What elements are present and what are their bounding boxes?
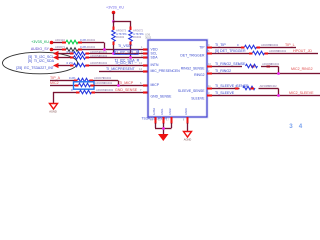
resistor R3072 stub bottom bbox=[130, 42, 132, 46]
resistor R3081 body bbox=[80, 90, 92, 94]
pin stub GND3 bbox=[171, 117, 173, 124]
wire row1 down bbox=[103, 43, 105, 50]
svg-text:AR3110: AR3110 bbox=[55, 38, 65, 42]
svg-text:MICP: MICP bbox=[151, 83, 160, 87]
svg-text:GND_SENSE: GND_SENSE bbox=[151, 95, 173, 99]
wire gnd right bbox=[170, 123, 172, 128]
resistor R3088 body bbox=[246, 64, 258, 68]
wire SLEEVES down bbox=[277, 89, 279, 96]
wire micp b bbox=[94, 84, 148, 86]
svg-text:5: 5 bbox=[208, 49, 210, 53]
junction SLEEVE bbox=[277, 94, 280, 97]
resistor R3051 stub r bbox=[86, 53, 90, 55]
wire SCL a bbox=[58, 52, 70, 54]
svg-text:RING2: RING2 bbox=[194, 73, 204, 77]
wire micp a bbox=[50, 84, 75, 86]
pin stub SDA bbox=[143, 57, 148, 59]
wire gnd sense b bbox=[95, 91, 148, 93]
svg-text:AUDIO_SY: AUDIO_SY bbox=[31, 47, 50, 51]
resistor R3110 body bbox=[66, 40, 78, 44]
svg-text:2: 2 bbox=[208, 69, 210, 73]
svg-text:AGND: AGND bbox=[49, 110, 57, 114]
resistor R3080 stub l bbox=[75, 85, 79, 87]
wire SDA a bbox=[58, 56, 70, 58]
svg-text:MIC2_SLEEVE: MIC2_SLEEVE bbox=[289, 91, 314, 95]
resistor R3081 stub r bbox=[92, 92, 96, 94]
wire RING2S a bbox=[212, 65, 242, 67]
junction SDA pullup bbox=[129, 56, 132, 59]
op-amp U3002 box bbox=[148, 40, 207, 117]
svg-text:+3V3S_KU: +3V3S_KU bbox=[106, 6, 124, 10]
resistor R3085 stub l bbox=[241, 47, 245, 49]
ground AGND right bbox=[184, 132, 192, 138]
svg-text:SDA: SDA bbox=[151, 55, 159, 59]
annotation ellipse bbox=[3, 52, 78, 74]
junction gnd bus bbox=[162, 127, 165, 130]
wire SDA b bbox=[89, 56, 148, 58]
resistor R3089 body bbox=[243, 86, 255, 90]
svg-text:0 2%: 0 2% bbox=[69, 76, 76, 80]
svg-text:[25] EC_TS3A227_INT: [25] EC_TS3A227_INT bbox=[16, 66, 55, 70]
ground AGND left bbox=[50, 104, 58, 110]
resistor R3071 stub l bbox=[62, 49, 66, 51]
svg-text:TI_I2C_SCL_R: TI_I2C_SCL_R bbox=[115, 51, 140, 55]
wire RING2 bbox=[212, 72, 320, 74]
svg-text:[5] TI_I2C_SDA: [5] TI_I2C_SDA bbox=[28, 59, 55, 63]
resistor R3088 stub r bbox=[267, 66, 271, 68]
wire gnd sense a bbox=[53, 91, 76, 93]
pin stub SCL bbox=[143, 53, 148, 55]
svg-text:TIP_L: TIP_L bbox=[285, 43, 295, 47]
resistor R3085 body bbox=[245, 45, 257, 49]
resistor R3051 stub l bbox=[70, 53, 74, 55]
pin stub MIC_PRESENT bbox=[143, 71, 148, 73]
pin stub INT bbox=[143, 65, 148, 67]
pin stub SLEEVE_SENSE bbox=[207, 88, 212, 90]
resistor R3089 stub r bbox=[251, 88, 255, 90]
svg-text:GND1: GND1 bbox=[161, 108, 164, 115]
svg-text:HPOUT_JD: HPOUT_JD bbox=[293, 49, 312, 53]
svg-text:10: 10 bbox=[208, 62, 211, 66]
junction RING2 bbox=[277, 72, 280, 75]
svg-text:GND_SENSE: GND_SENSE bbox=[115, 88, 138, 92]
power symbol dot bbox=[112, 11, 116, 15]
wire R3072 to SDA bbox=[129, 45, 131, 58]
junction row1-row2 bbox=[103, 48, 106, 51]
junction micp bbox=[117, 84, 120, 87]
resistor R3072 stub top bbox=[130, 27, 132, 31]
wire SLEEVE bbox=[212, 94, 320, 96]
svg-text:INTN: INTN bbox=[151, 63, 159, 67]
wire DET b bbox=[268, 52, 318, 54]
resistor R3080 stub r bbox=[91, 85, 95, 87]
pin stub GND1 bbox=[155, 117, 157, 124]
svg-text:8: 8 bbox=[183, 119, 185, 122]
resistor R3086 stub r bbox=[265, 53, 269, 55]
wire power horizontal bbox=[113, 20, 131, 22]
offpage dot row2 bbox=[50, 48, 54, 52]
resistor R3073 stub bottom bbox=[113, 42, 115, 46]
wire INT a bbox=[58, 64, 70, 66]
resistor R3052 body bbox=[74, 56, 86, 60]
pin stub VDD bbox=[143, 49, 148, 51]
svg-text:0 2%: 0 2% bbox=[67, 61, 74, 65]
svg-text:TI_MICP: TI_MICP bbox=[119, 81, 134, 85]
resistor R3057 body bbox=[74, 63, 86, 67]
wire TIP b bbox=[260, 46, 296, 48]
resistor R3052 stub l bbox=[70, 57, 74, 59]
svg-text:9: 9 bbox=[208, 43, 210, 47]
offpage arrow SDA bbox=[53, 55, 59, 60]
wire to agnd left bbox=[52, 92, 54, 103]
pin stub AGND pad bbox=[187, 117, 189, 124]
offpage arrow SCL bbox=[53, 51, 59, 56]
svg-text:3: 3 bbox=[208, 91, 210, 95]
svg-text:3002: 3002 bbox=[145, 36, 152, 40]
svg-text:MIC2_RING2: MIC2_RING2 bbox=[291, 67, 313, 71]
resistor R3080 body bbox=[79, 83, 91, 87]
wire RING2S b bbox=[261, 65, 279, 67]
wire row2 a bbox=[53, 48, 62, 50]
wire gnd mid bbox=[162, 123, 164, 134]
ground GND solid bbox=[158, 134, 169, 141]
svg-text:DET_TRIGGER: DET_TRIGGER bbox=[180, 54, 205, 58]
wire row1 b bbox=[82, 41, 104, 43]
resistor R3057 stub r bbox=[86, 65, 90, 67]
resistor R3081 stub l bbox=[76, 92, 80, 94]
resistor R3088 stub l bbox=[251, 66, 255, 68]
svg-text:SLEEVE_SENSE: SLEEVE_SENSE bbox=[178, 89, 205, 93]
resistor R3071 stub r bbox=[78, 49, 82, 51]
dni box around R3080 bbox=[74, 82, 95, 89]
resistor R3051 body bbox=[74, 52, 86, 56]
resistor R3086 stub l bbox=[249, 53, 253, 55]
selection box TI_I2C_SCL_R bbox=[114, 50, 138, 55]
wire SCL b bbox=[89, 52, 148, 54]
svg-text:AGND: AGND bbox=[184, 138, 192, 142]
wire power vertical bbox=[112, 13, 114, 21]
wire agnd right bbox=[186, 123, 188, 131]
offpage dot row1 bbox=[50, 41, 54, 45]
wire to R3073 bbox=[112, 21, 114, 27]
resistor R3073 stub top bbox=[113, 27, 115, 31]
resistor R3079 stub r bbox=[90, 80, 94, 82]
pin stub TIP bbox=[207, 47, 212, 49]
resistor R3085 stub r bbox=[257, 47, 261, 49]
resistor R3052 stub r bbox=[86, 57, 90, 59]
wire mic row b bbox=[93, 79, 118, 81]
wire DET a bbox=[212, 52, 249, 54]
wire gnd bus bbox=[155, 127, 172, 129]
wire R3073 to SCL bbox=[112, 45, 114, 54]
svg-text:R0402: R0402 bbox=[116, 35, 125, 39]
wire gnd left bbox=[154, 123, 156, 128]
wire mic down bbox=[117, 81, 119, 86]
wire SLEEVES a bbox=[212, 87, 240, 89]
resistor R3071 body bbox=[66, 48, 78, 52]
svg-text:GND3: GND3 bbox=[185, 108, 188, 115]
svg-text:+3V3S_KU: +3V3S_KU bbox=[31, 40, 49, 44]
svg-text:SLEEVE: SLEEVE bbox=[191, 97, 205, 101]
svg-text:A-PAD: A-PAD bbox=[153, 108, 156, 115]
svg-text:AR3071: AR3071 bbox=[55, 45, 66, 49]
wire TIP a bbox=[212, 46, 241, 48]
pin stub RING2 bbox=[207, 73, 212, 75]
resistor R3110 stub r bbox=[78, 42, 82, 44]
junction power rail bbox=[112, 20, 115, 23]
resistor R3086 body bbox=[253, 51, 265, 55]
svg-text:TI_MICPRESENT: TI_MICPRESENT bbox=[106, 67, 136, 71]
pin stub MICP bbox=[143, 85, 148, 87]
svg-text:TI_I2C_INT: TI_I2C_INT bbox=[115, 61, 134, 65]
wire RING2S down bbox=[277, 67, 279, 74]
svg-text:TI_VS0P: TI_VS0P bbox=[118, 44, 133, 48]
wire INT b bbox=[89, 64, 148, 66]
wire SLEEVES b bbox=[259, 87, 279, 89]
svg-text:R0402: R0402 bbox=[133, 35, 142, 39]
svg-text:4: 4 bbox=[299, 123, 303, 130]
svg-text:MIC_PRESENCEN: MIC_PRESENCEN bbox=[151, 69, 181, 73]
resistor R3110 stub l bbox=[62, 42, 66, 44]
wire mic row a bbox=[50, 79, 74, 81]
pin stub SLEEVE bbox=[207, 95, 212, 97]
wire VDD bbox=[82, 48, 148, 50]
pin stub DET_TRIGGER bbox=[207, 53, 212, 55]
resistor R3079 body bbox=[78, 78, 90, 82]
pin stub GND2 bbox=[163, 117, 165, 124]
pin stub GND_SENSE bbox=[143, 92, 148, 94]
svg-text:3: 3 bbox=[289, 123, 293, 130]
svg-text:TIP: TIP bbox=[199, 46, 205, 50]
svg-text:GND2: GND2 bbox=[169, 108, 172, 115]
junction SCL pullup bbox=[112, 52, 115, 55]
pin stub RING2_SENSE bbox=[207, 66, 212, 68]
resistor R3079 stub l bbox=[74, 80, 78, 82]
offpage arrow INT bbox=[53, 63, 59, 68]
wire row1 a bbox=[53, 41, 62, 43]
wire to R3072 bbox=[129, 21, 131, 27]
resistor R3057 stub l bbox=[70, 65, 74, 67]
wire MIC_PRESENT bbox=[99, 70, 148, 72]
resistor R3072 body bbox=[129, 30, 133, 42]
resistor R3089 stub l bbox=[235, 88, 239, 90]
svg-text:11: 11 bbox=[208, 84, 211, 88]
svg-text:RING2_SENSE: RING2_SENSE bbox=[181, 67, 205, 71]
resistor R3073 body bbox=[112, 30, 116, 42]
